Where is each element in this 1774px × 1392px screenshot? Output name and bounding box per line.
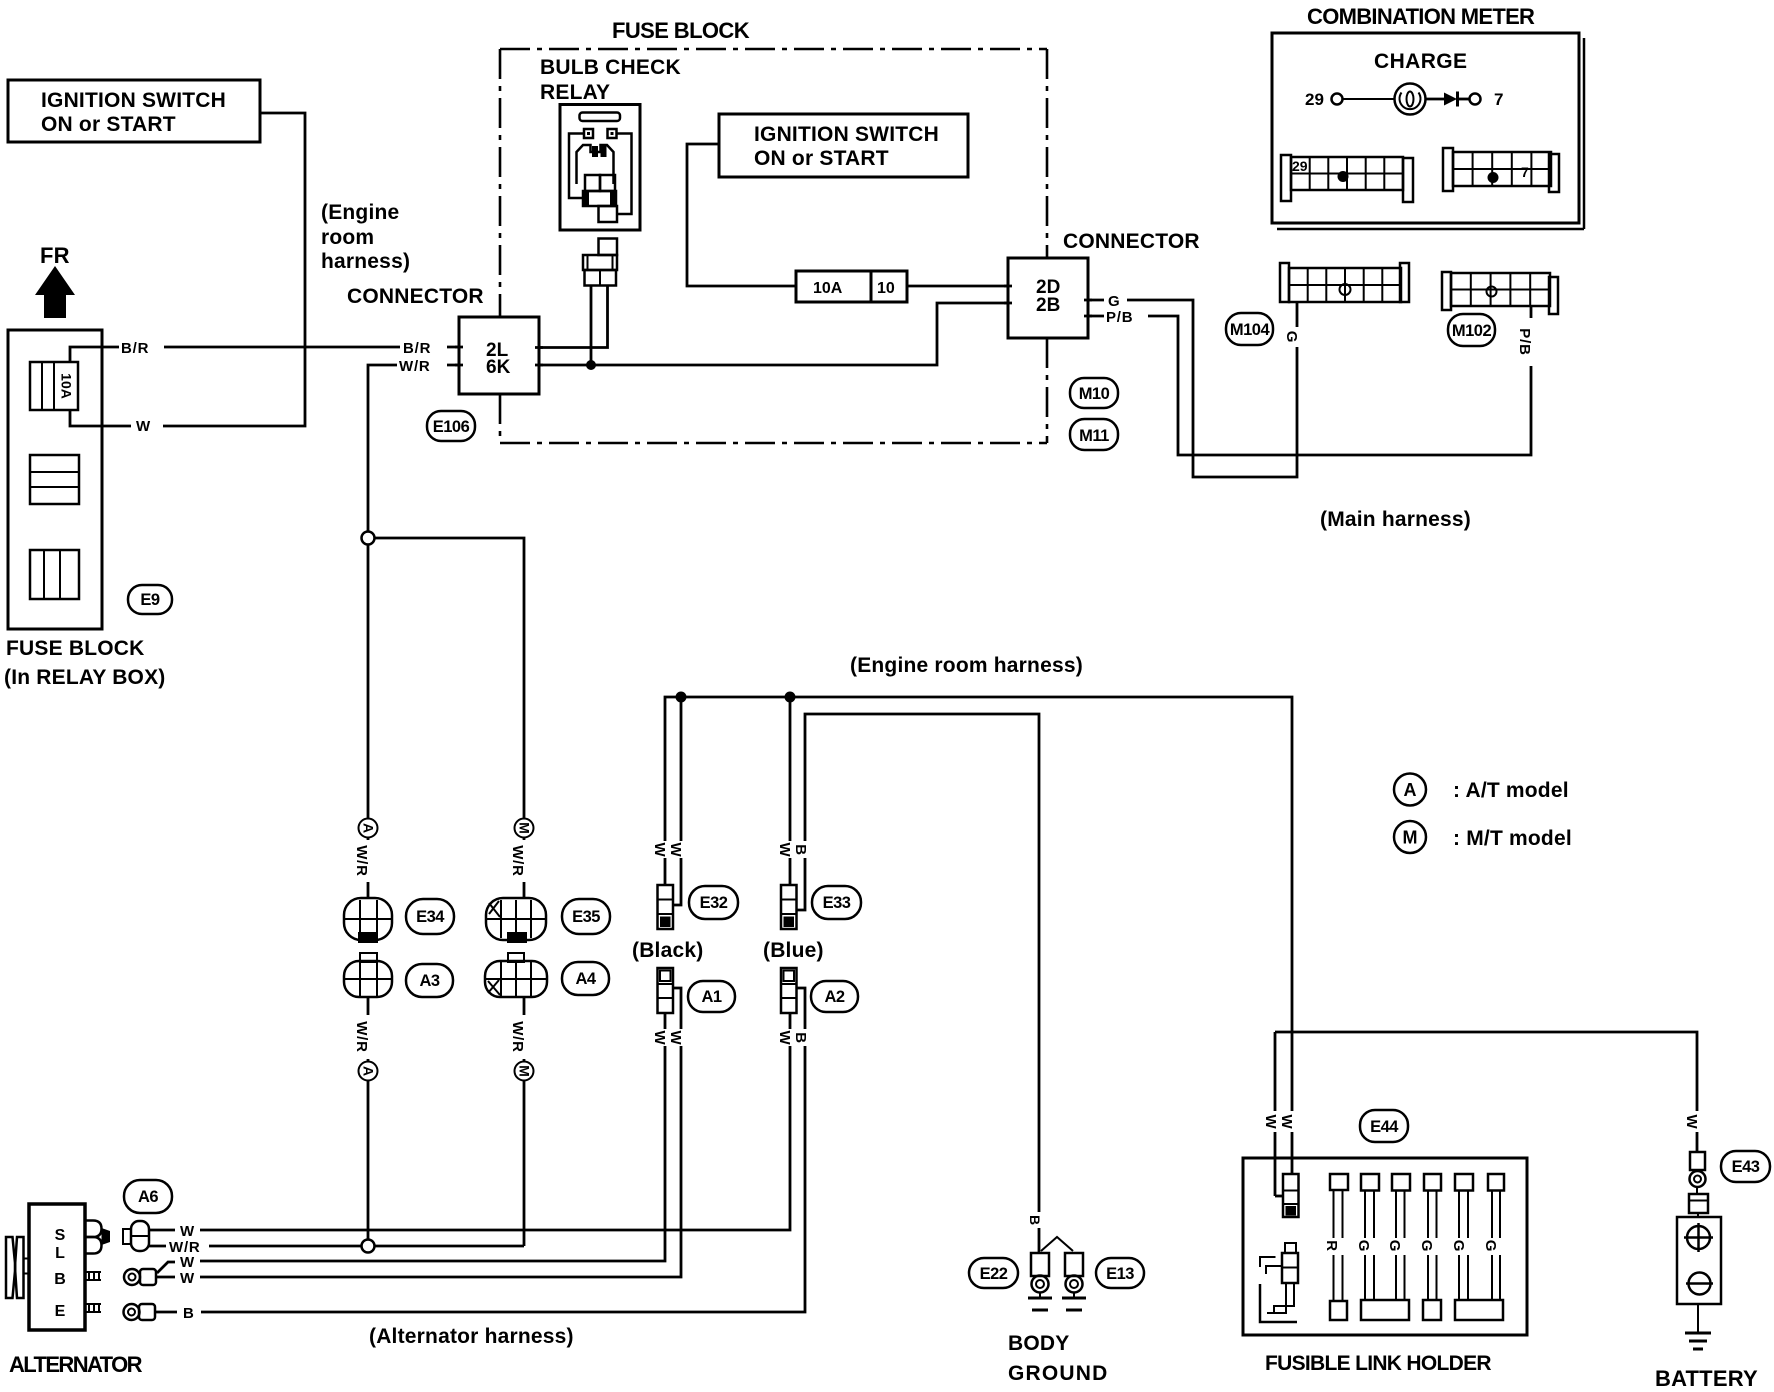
svg-text:R: R — [1323, 1240, 1340, 1252]
svg-text:G: G — [1386, 1240, 1403, 1252]
svg-text:L: L — [55, 1245, 65, 1262]
svg-text:B: B — [183, 1305, 195, 1322]
svg-text:E9: E9 — [140, 591, 160, 609]
svg-text:W: W — [651, 843, 668, 858]
svg-text:CHARGE: CHARGE — [1374, 50, 1467, 73]
svg-text:BODY: BODY — [1008, 1332, 1069, 1355]
svg-text:M: M — [517, 1065, 533, 1077]
svg-text:10A: 10A — [59, 373, 75, 399]
svg-text:M10: M10 — [1079, 385, 1110, 403]
svg-text:6K: 6K — [486, 357, 511, 378]
svg-text:COMBINATION METER: COMBINATION METER — [1307, 4, 1535, 29]
svg-text:29: 29 — [1292, 158, 1308, 174]
svg-text:W: W — [776, 843, 793, 858]
svg-text:W: W — [136, 418, 151, 435]
svg-text:RELAY: RELAY — [540, 81, 610, 104]
svg-text:(Blue): (Blue) — [763, 939, 824, 962]
svg-text:CONNECTOR: CONNECTOR — [347, 285, 484, 308]
svg-text:B/R: B/R — [121, 340, 149, 357]
svg-text:harness): harness) — [321, 250, 410, 273]
svg-text:E43: E43 — [1732, 1158, 1760, 1176]
svg-text:E32: E32 — [700, 894, 728, 912]
svg-text:P/B: P/B — [1106, 309, 1133, 326]
svg-text:E: E — [55, 1303, 66, 1320]
svg-text:A3: A3 — [419, 972, 439, 990]
svg-text:E34: E34 — [416, 908, 445, 926]
svg-text:A6: A6 — [138, 1188, 158, 1206]
svg-text:W/R: W/R — [353, 1021, 370, 1053]
svg-text:M102: M102 — [1452, 322, 1492, 340]
svg-text:ON or START: ON or START — [41, 113, 176, 136]
svg-text:E13: E13 — [1106, 1265, 1134, 1283]
svg-text:A: A — [1404, 780, 1417, 800]
svg-text:GROUND: GROUND — [1008, 1362, 1109, 1385]
svg-text:G: G — [1418, 1240, 1435, 1252]
svg-text:IGNITION SWITCH: IGNITION SWITCH — [41, 89, 226, 112]
svg-text:A1: A1 — [701, 988, 721, 1006]
svg-text:W: W — [776, 1031, 793, 1046]
svg-text:(Alternator harness): (Alternator harness) — [369, 1325, 574, 1348]
svg-text:10A: 10A — [813, 280, 843, 297]
svg-text:G: G — [1108, 293, 1120, 310]
svg-text:7: 7 — [1521, 164, 1529, 180]
svg-text:A: A — [361, 823, 377, 833]
svg-text:E35: E35 — [572, 908, 600, 926]
svg-text:W: W — [1278, 1115, 1295, 1130]
svg-text:G: G — [1283, 331, 1300, 343]
svg-text:W/R: W/R — [509, 845, 526, 877]
svg-text:(Engine room harness): (Engine room harness) — [850, 654, 1083, 677]
svg-text:G: G — [1450, 1240, 1467, 1252]
svg-text:FUSE BLOCK: FUSE BLOCK — [612, 18, 750, 43]
svg-text:ALTERNATOR: ALTERNATOR — [9, 1352, 143, 1377]
svg-text:M: M — [1403, 828, 1418, 848]
svg-text:W/R: W/R — [399, 358, 431, 375]
svg-text:W: W — [651, 1031, 668, 1046]
svg-text:E22: E22 — [980, 1265, 1008, 1283]
svg-text:2B: 2B — [1036, 295, 1060, 316]
svg-text:W: W — [180, 1254, 195, 1271]
svg-text:FUSE BLOCK: FUSE BLOCK — [6, 637, 145, 660]
svg-text:: A/T model: : A/T model — [1453, 779, 1569, 802]
svg-text:S: S — [55, 1227, 66, 1244]
svg-text:ON or START: ON or START — [754, 147, 889, 170]
svg-text:B: B — [792, 844, 809, 856]
svg-text:B: B — [1027, 1215, 1043, 1225]
svg-text:29: 29 — [1305, 90, 1324, 109]
svg-text:10: 10 — [877, 280, 895, 297]
svg-text:W/R: W/R — [353, 845, 370, 877]
svg-text:(In RELAY BOX): (In RELAY BOX) — [4, 666, 166, 689]
svg-text:(Main harness): (Main harness) — [1320, 508, 1471, 531]
svg-text:W: W — [180, 1270, 195, 1287]
svg-text:B: B — [792, 1032, 809, 1044]
svg-text:FUSIBLE LINK HOLDER: FUSIBLE LINK HOLDER — [1265, 1352, 1491, 1375]
svg-text:A4: A4 — [575, 970, 596, 988]
svg-text:: M/T model: : M/T model — [1453, 827, 1572, 850]
svg-text:(Black): (Black) — [632, 939, 703, 962]
svg-text:G: G — [1355, 1240, 1372, 1252]
svg-text:M11: M11 — [1079, 427, 1109, 445]
svg-text:W: W — [667, 1031, 684, 1046]
svg-text:A2: A2 — [824, 988, 844, 1006]
svg-text:W: W — [1683, 1115, 1700, 1130]
svg-text:G: G — [1482, 1240, 1499, 1252]
svg-text:W: W — [1262, 1115, 1279, 1130]
svg-text:A: A — [361, 1066, 377, 1076]
svg-text:FR: FR — [40, 243, 70, 268]
svg-text:W/R: W/R — [509, 1021, 526, 1053]
svg-text:B: B — [54, 1271, 66, 1288]
svg-text:BATTERY: BATTERY — [1655, 1366, 1758, 1391]
svg-text:E106: E106 — [433, 418, 470, 436]
svg-text:W: W — [667, 843, 684, 858]
svg-text:B/R: B/R — [403, 340, 431, 357]
svg-text:BULB CHECK: BULB CHECK — [540, 56, 681, 79]
svg-text:IGNITION SWITCH: IGNITION SWITCH — [754, 123, 939, 146]
svg-text:room: room — [321, 226, 374, 249]
svg-text:E44: E44 — [1370, 1118, 1399, 1136]
svg-text:M: M — [517, 822, 533, 834]
svg-text:P/B: P/B — [1516, 328, 1533, 355]
svg-text:(Engine: (Engine — [321, 201, 399, 224]
svg-text:M104: M104 — [1230, 321, 1271, 339]
svg-text:CONNECTOR: CONNECTOR — [1063, 230, 1200, 253]
svg-text:E33: E33 — [823, 894, 851, 912]
svg-text:7: 7 — [1494, 90, 1503, 109]
svg-text:W: W — [180, 1223, 195, 1240]
